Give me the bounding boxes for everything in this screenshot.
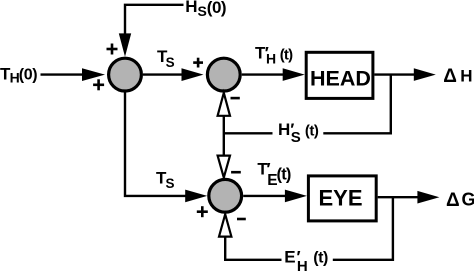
wire H'_S left segment to node xyxy=(224,132,273,134)
plus sign left-below S1 xyxy=(93,79,104,90)
open arrowhead down into S3 xyxy=(218,156,230,178)
plus sign above S1 xyxy=(107,44,118,55)
wire top H_S(0) elbow into summing junction S1 xyxy=(125,5,184,36)
label T'_E(t) xyxy=(257,160,290,189)
svg-text:(t): (t) xyxy=(313,250,328,267)
plus sign above-left S2 xyxy=(193,58,203,68)
arrowhead into HEAD xyxy=(283,68,305,81)
svg-text:H: H xyxy=(278,120,290,139)
summing junction S3 xyxy=(209,179,242,212)
wire S1 to S2 xyxy=(143,73,188,75)
open arrowhead up into S3 bottom xyxy=(219,214,231,236)
arrowhead down into S1 xyxy=(119,33,131,56)
label T'_H (t) xyxy=(255,44,293,67)
svg-text:HEAD: HEAD xyxy=(310,67,371,91)
block EYE xyxy=(308,176,376,221)
svg-text:H: H xyxy=(297,258,308,271)
label T_H(0) xyxy=(0,64,37,85)
block HEAD xyxy=(306,52,373,98)
wire E'_H left segment up into S3 xyxy=(225,237,281,260)
label E'_H (t) xyxy=(284,248,328,271)
svg-text:H: H xyxy=(185,0,197,16)
label H'_S (t) xyxy=(278,120,319,146)
label T_S upper xyxy=(157,47,175,70)
arrowhead into S1 left xyxy=(82,68,105,81)
open arrowhead up into S2 xyxy=(218,93,230,116)
plus sign left-below S3 xyxy=(197,206,208,217)
svg-text:EYE: EYE xyxy=(319,186,363,211)
arrowhead into EYE xyxy=(285,190,307,203)
svg-text:(t): (t) xyxy=(277,166,291,184)
svg-text:G: G xyxy=(462,190,474,210)
wire vertical between S2 and S3 xyxy=(223,114,225,157)
svg-text:Δ: Δ xyxy=(446,190,460,211)
label Delta H xyxy=(443,66,472,87)
wire EYE to output xyxy=(378,196,421,198)
minus sign below-right S3 xyxy=(237,218,246,221)
svg-text:H: H xyxy=(460,67,472,86)
svg-text:S: S xyxy=(166,176,175,191)
arrowhead output eye xyxy=(417,191,439,204)
wire T_H(0) input xyxy=(41,73,86,75)
wire feedback tap EYE output down xyxy=(333,197,393,260)
svg-text:(0): (0) xyxy=(207,0,226,17)
wire HEAD to output xyxy=(374,73,417,75)
label T_S lower xyxy=(156,168,175,191)
svg-text:E: E xyxy=(284,248,295,267)
wire S1 down and right to S3 xyxy=(125,92,190,196)
summing junction S2 xyxy=(207,58,240,91)
svg-text:S: S xyxy=(291,129,301,146)
wire S2 to HEAD xyxy=(242,73,286,75)
wire feedback tap HEAD output down xyxy=(323,75,391,134)
svg-text:(0): (0) xyxy=(19,66,37,83)
summing junction S1 xyxy=(109,58,142,91)
arrowhead into S2 xyxy=(182,68,204,81)
arrowhead output head xyxy=(414,68,436,81)
svg-text:(t): (t) xyxy=(280,47,293,64)
svg-text:H: H xyxy=(266,51,276,67)
svg-text:Δ: Δ xyxy=(443,66,457,87)
wire S3 to EYE xyxy=(243,195,288,197)
minus sign above-right S3 xyxy=(231,171,241,174)
minus sign below-right S2 xyxy=(231,97,240,100)
label H_S(0) xyxy=(185,0,226,19)
arrowhead into S3 left xyxy=(185,190,207,203)
svg-text:S: S xyxy=(198,3,207,19)
label Delta G xyxy=(446,190,474,211)
svg-text:S: S xyxy=(166,55,175,70)
svg-text:(t): (t) xyxy=(305,122,319,139)
